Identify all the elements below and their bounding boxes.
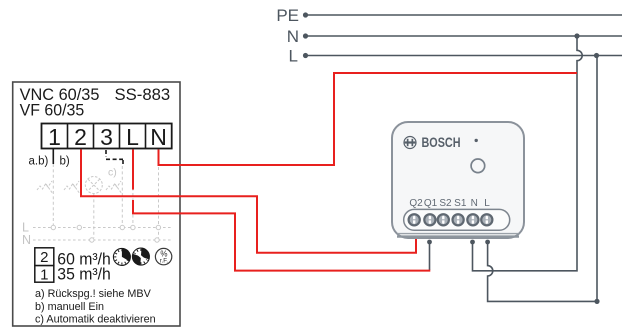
svg-text:c): c) bbox=[108, 167, 117, 179]
svg-text:1: 1 bbox=[48, 124, 61, 150]
svg-text:35 m³/h: 35 m³/h bbox=[57, 265, 111, 283]
svg-text:a.b): a.b) bbox=[29, 156, 49, 168]
svg-text:N: N bbox=[471, 198, 478, 209]
svg-text:Q2: Q2 bbox=[409, 198, 423, 209]
svg-text:a) Rückspg.! siehe MBV: a) Rückspg.! siehe MBV bbox=[35, 288, 152, 300]
svg-text:PE: PE bbox=[276, 6, 299, 25]
svg-text:L: L bbox=[126, 124, 139, 150]
svg-text:c) Automatik deaktivieren: c) Automatik deaktivieren bbox=[35, 314, 156, 326]
svg-text:Q1: Q1 bbox=[424, 198, 438, 209]
svg-text:N: N bbox=[287, 27, 299, 46]
svg-text:3: 3 bbox=[100, 124, 113, 150]
svg-text:S2: S2 bbox=[439, 198, 452, 209]
svg-text:L: L bbox=[484, 198, 490, 209]
svg-text:b) manuell Ein: b) manuell Ein bbox=[35, 301, 104, 313]
svg-text:N: N bbox=[22, 233, 31, 247]
svg-text:BOSCH: BOSCH bbox=[422, 135, 461, 150]
svg-text:N: N bbox=[150, 124, 167, 150]
svg-text:S1: S1 bbox=[454, 198, 467, 209]
svg-text:b): b) bbox=[60, 156, 70, 168]
svg-text:2: 2 bbox=[40, 249, 48, 266]
svg-text:2: 2 bbox=[74, 124, 87, 150]
svg-text:VF 60/35: VF 60/35 bbox=[20, 100, 85, 119]
svg-text:SS-883: SS-883 bbox=[115, 85, 171, 104]
svg-text:L: L bbox=[289, 46, 298, 65]
svg-text:r.F.: r.F. bbox=[160, 258, 169, 265]
svg-text:1: 1 bbox=[40, 266, 48, 283]
